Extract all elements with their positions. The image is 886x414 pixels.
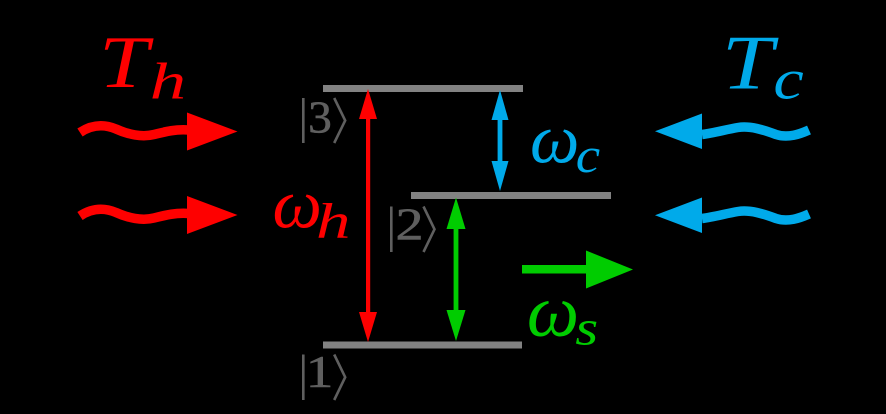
red vertical double arrow omega_h (|1> to |3>) <box>359 89 377 342</box>
svg-text:T: T <box>99 21 154 103</box>
svg-text:h: h <box>150 52 186 110</box>
svg-text:2: 2 <box>396 199 424 250</box>
svg-text:ω: ω <box>273 167 322 244</box>
svg-text:1: 1 <box>306 346 334 397</box>
svg-text:s: s <box>575 299 598 355</box>
level bar |2> (middle energy level) <box>411 192 611 199</box>
green vertical double arrow omega_s (|1> to |2>) <box>447 198 466 342</box>
cyan wavy arrow 1 (cold photon out, upper) <box>655 114 809 150</box>
svg-text:c: c <box>576 128 600 183</box>
svg-text:h: h <box>316 194 350 250</box>
label omega_h <box>273 167 351 250</box>
ket label |1> <box>302 346 345 400</box>
svg-text:ω: ω <box>527 271 579 353</box>
red wavy arrow 1 (hot photon in, upper) <box>80 113 238 151</box>
label omega_s <box>527 271 598 355</box>
svg-text:c: c <box>773 48 803 111</box>
red wavy arrow 2 (hot photon in, lower) <box>80 196 238 234</box>
cyan wavy arrow 2 (cold photon out, lower) <box>655 198 809 234</box>
label T_c (cold bath temperature) <box>722 21 804 111</box>
ket label |3> <box>302 92 345 143</box>
label T_h (hot bath temperature) <box>99 21 186 110</box>
svg-text:3: 3 <box>308 92 332 143</box>
ket label |2> <box>390 199 435 252</box>
level bar |1> (bottom energy level) <box>323 342 522 349</box>
label omega_c <box>530 101 600 183</box>
svg-text:ω: ω <box>530 101 579 178</box>
green output arrow omega_s (horizontal, signal out) <box>522 251 633 289</box>
level bar |3> (top energy level) <box>323 85 523 92</box>
blue vertical double arrow omega_c (|2> to |3>) <box>492 90 509 191</box>
svg-text:T: T <box>722 21 780 106</box>
